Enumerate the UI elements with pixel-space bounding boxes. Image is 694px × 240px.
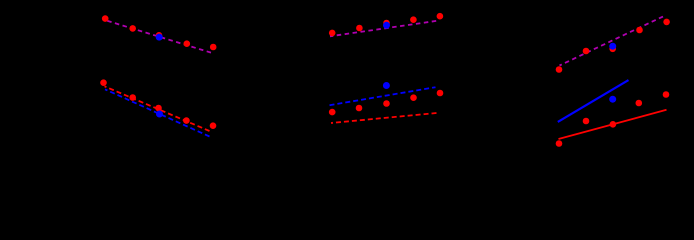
panel 3 bottom: red data point 5 bbox=[663, 91, 670, 98]
panel 3 bottom: red data point 4 bbox=[636, 100, 643, 107]
panel 3 top: purple dashed fit line bbox=[560, 17, 664, 66]
panel 2 top: purple dashed fit line bbox=[330, 21, 436, 36]
panel 3 bottom: blue solid fit line bbox=[558, 80, 629, 122]
panel 3 top: red data point 4 bbox=[636, 27, 643, 34]
panel 2 middle: red data point 1 bbox=[329, 109, 336, 116]
panel 2 middle: red data point 3 bbox=[383, 100, 390, 107]
panel 1 top: purple dashed fit line bbox=[104, 20, 214, 54]
panel 2 middle: red data point 4 bbox=[410, 94, 417, 101]
panel 1 bottom: red data point 4 bbox=[183, 117, 190, 124]
panel 3 top: blue data point 3 bbox=[609, 43, 616, 50]
panel 1 bottom: red data point 3 bbox=[155, 105, 162, 112]
panel 3 top: red data point 5 bbox=[663, 19, 670, 26]
panel 1 bottom: red data point 5 bbox=[210, 122, 217, 129]
panel 3 bottom: red data point 1 bbox=[556, 140, 563, 147]
panel 1 top: red data point 3 (behind blue) bbox=[156, 32, 163, 39]
panel 2 top: red data point 4 bbox=[410, 16, 417, 23]
panel 2 middle: red data point 2 bbox=[356, 105, 363, 112]
panel 2 top: red data point 5 bbox=[437, 13, 444, 20]
panel 1 bottom: red data point 2 bbox=[129, 94, 136, 101]
panel 2 top: red data point 2 bbox=[356, 25, 363, 32]
panel 2 middle: blue dashed fit line bbox=[330, 87, 436, 105]
panel 1 top: red data point 2 bbox=[129, 25, 136, 32]
panel 3 top: red data point 2 bbox=[583, 48, 590, 55]
panel 1 top: blue data point 3 bbox=[156, 34, 163, 41]
panel 3 top: red data point 1 bbox=[556, 66, 563, 73]
panel 3 bottom: red data point 3 bbox=[610, 121, 617, 128]
panel 2 middle: red data point 5 bbox=[437, 90, 444, 97]
panel 3 bottom: red solid fit line bbox=[559, 110, 667, 139]
panel 1 top: red data point 5 bbox=[210, 44, 217, 51]
panel 2 top: red data point 1 bbox=[329, 30, 336, 37]
panel 1 bottom: blue data point 3 bbox=[156, 111, 163, 118]
panel 2 middle: blue data point (outlier above line) bbox=[383, 82, 390, 89]
panel 1 bottom: blue dashed fit line bbox=[105, 89, 210, 136]
panel 3 bottom: red data point 2 bbox=[583, 118, 590, 125]
panel 2 top: red data point 3 (behind blue) bbox=[383, 20, 390, 27]
panel 1 top: red data point 4 bbox=[184, 40, 191, 47]
panel 2 top: blue data point 3 bbox=[383, 22, 390, 29]
panel 3 top: red data point 3 (behind blue) bbox=[609, 46, 616, 53]
panel 1 bottom: red dashed fit line bbox=[105, 86, 210, 131]
panel 2 bottom: red dashed fit line bbox=[331, 113, 437, 123]
panel 3 bottom: blue data point bbox=[609, 96, 616, 103]
panel 1 bottom: red data point 1 bbox=[100, 79, 107, 86]
panel 1 top: red data point 1 bbox=[102, 15, 109, 22]
